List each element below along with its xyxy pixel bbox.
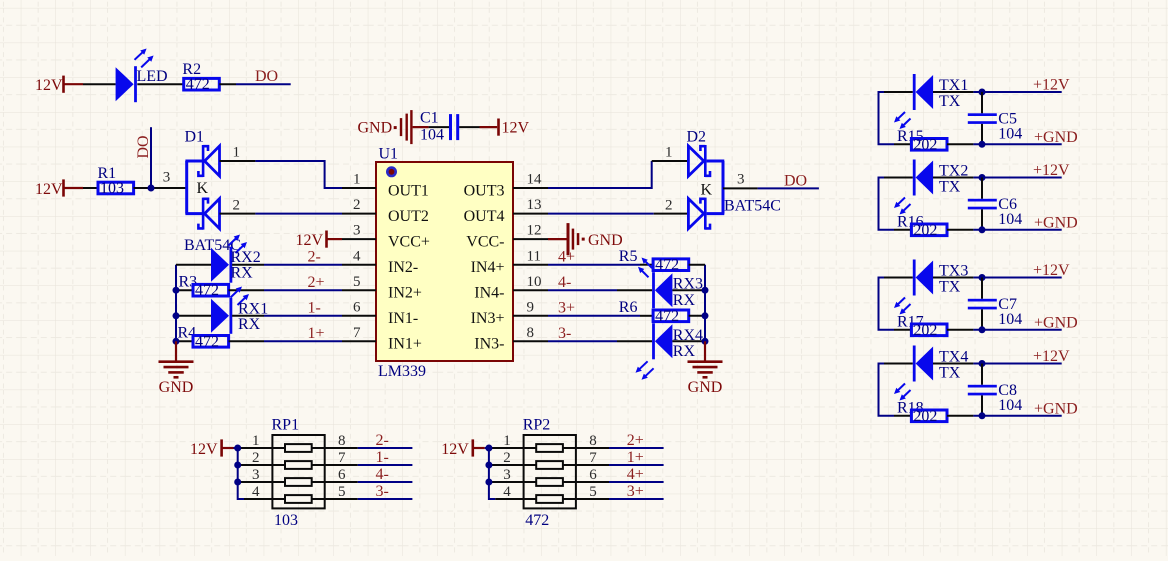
wire U1 pin8 to RX4	[548, 340, 652, 342]
wire net DO vertical	[150, 127, 152, 188]
net label +12V (TX1)	[1033, 77, 1070, 94]
svg-text:7: 7	[353, 325, 361, 341]
wire RX1 to U1 pin6	[232, 315, 342, 317]
svg-text:104: 104	[998, 125, 1022, 142]
net label 2+	[308, 274, 325, 291]
svg-text:OUT3: OUT3	[464, 182, 505, 199]
net label 4+	[558, 249, 575, 266]
LED TX4	[884, 346, 968, 401]
D1 pin 2	[220, 197, 256, 213]
net label +GND (TX2)	[1034, 214, 1078, 231]
svg-text:2-: 2-	[376, 432, 389, 449]
U1 pin 2 (OUT2)	[342, 197, 429, 225]
wire R4 to U1 pin7	[229, 340, 342, 342]
U1 pin 11 (IN4+)	[471, 248, 548, 276]
power port GND (VCC-)	[548, 223, 623, 255]
junction RP2 rail row 3	[485, 479, 492, 486]
resistor R1 103	[98, 165, 134, 197]
svg-text:1: 1	[233, 145, 241, 161]
LED TX3	[884, 260, 968, 315]
svg-text:RP1: RP1	[272, 417, 300, 434]
svg-text:+12V: +12V	[1033, 262, 1070, 279]
U1 pin 7 (IN1+)	[342, 325, 422, 353]
LED TX2	[884, 160, 968, 215]
net label 1-	[376, 449, 389, 466]
D2 pin 2	[654, 197, 689, 213]
wire GND to C1	[429, 126, 449, 128]
wire D1 pin2 to U1 pin2	[255, 213, 342, 215]
net label DO (top)	[255, 68, 278, 85]
svg-text:TX: TX	[939, 178, 961, 195]
svg-text:3-: 3-	[558, 325, 571, 342]
resistor R15 202	[894, 128, 947, 153]
svg-text:TX: TX	[939, 364, 961, 381]
svg-text:2: 2	[353, 197, 361, 213]
RP1 pin 7	[325, 450, 358, 466]
svg-text:12V: 12V	[441, 441, 469, 458]
resistor R3 472	[176, 273, 229, 299]
svg-text:3: 3	[503, 467, 511, 483]
svg-text:202: 202	[913, 136, 937, 153]
LED TX1	[884, 74, 968, 129]
LED RX3	[652, 272, 703, 309]
net label +12V (TX3)	[1033, 262, 1070, 279]
svg-text:8: 8	[338, 433, 346, 449]
svg-text:OUT4: OUT4	[464, 208, 505, 225]
wire D2 pin3 to net DO	[758, 187, 819, 189]
svg-text:12V: 12V	[296, 232, 324, 249]
diode D2 BAT54C common-cathode pair	[687, 129, 781, 230]
U1 pin 14 (OUT3)	[464, 172, 548, 200]
resistor R16 202	[894, 213, 947, 238]
net label 4-	[376, 466, 389, 483]
svg-text:BAT54C: BAT54C	[724, 197, 781, 214]
svg-text:TX: TX	[939, 278, 961, 295]
svg-text:IN4+: IN4+	[471, 259, 505, 276]
wire LED to R2	[137, 83, 183, 85]
RP2 pin 7	[576, 450, 609, 466]
svg-text:3+: 3+	[627, 483, 644, 500]
RP1 element 4	[272, 495, 324, 503]
svg-text:3-: 3-	[376, 483, 389, 500]
ground (right)	[688, 341, 723, 396]
svg-text:472: 472	[655, 257, 679, 274]
junction RX1/rail	[173, 312, 180, 319]
svg-text:IN2+: IN2+	[388, 285, 422, 302]
U1 pin 12 (VCC-)	[466, 223, 548, 251]
RP1 pin 5	[325, 484, 358, 500]
svg-text:VCC-: VCC-	[466, 233, 504, 250]
wire right GND rail	[704, 265, 706, 342]
net label +12V (TX4)	[1033, 348, 1070, 365]
comparator U1 LM339 body	[376, 145, 513, 380]
svg-text:OUT1: OUT1	[388, 182, 429, 199]
junction R4/rail/GND	[173, 338, 180, 345]
capacitor C6 104	[968, 178, 1023, 230]
svg-text:472: 472	[195, 333, 219, 350]
net label 1+	[308, 325, 325, 342]
junction RP1 rail row 3	[234, 479, 241, 486]
power port 12V (left, mid)	[35, 179, 83, 197]
svg-text:103: 103	[274, 512, 298, 529]
RP1 pin 6	[325, 467, 358, 483]
net label 2-	[308, 249, 321, 266]
svg-text:12V: 12V	[35, 77, 63, 94]
svg-text:12V: 12V	[190, 441, 218, 458]
U1 pin 3 (VCC+)	[342, 223, 430, 251]
RP2 pin 1	[491, 433, 523, 449]
net label 3-	[376, 483, 389, 500]
svg-text:1: 1	[353, 172, 361, 188]
power port 12V (VCC+)	[296, 231, 343, 249]
svg-text:2: 2	[665, 197, 673, 213]
wire R3 to U1 pin5	[229, 289, 342, 291]
svg-text:14: 14	[527, 172, 543, 188]
svg-text:2-: 2-	[308, 249, 321, 266]
svg-text:+GND: +GND	[1034, 129, 1078, 146]
svg-text:1: 1	[252, 433, 260, 449]
svg-text:4+: 4+	[627, 466, 644, 483]
net label +GND (TX1)	[1034, 129, 1078, 146]
RP1 pin 4	[244, 484, 272, 500]
svg-text:6: 6	[338, 467, 346, 483]
U1 pin 5 (IN2+)	[342, 274, 422, 302]
svg-text:2+: 2+	[627, 432, 644, 449]
svg-text:202: 202	[913, 222, 937, 239]
svg-text:104: 104	[998, 397, 1022, 414]
svg-text:IN3+: IN3+	[471, 310, 505, 327]
net label 3+	[558, 300, 575, 317]
svg-text:1+: 1+	[308, 325, 325, 342]
resistor R2 472	[182, 61, 219, 93]
svg-text:R5: R5	[619, 248, 638, 265]
capacitor C7 104	[968, 278, 1023, 330]
svg-text:5: 5	[353, 274, 361, 290]
RP2 element 1	[524, 444, 576, 452]
svg-text:1-: 1-	[308, 300, 321, 317]
svg-text:4: 4	[252, 484, 260, 500]
svg-text:RX: RX	[673, 292, 696, 309]
svg-text:3: 3	[252, 467, 260, 483]
svg-text:RX: RX	[238, 316, 261, 333]
RP2 pin 6	[576, 467, 609, 483]
wire RP2 pin 8 net 2+	[609, 447, 664, 449]
net label +12V (TX2)	[1033, 162, 1070, 179]
capacitor C8 104	[968, 364, 1023, 416]
svg-text:12V: 12V	[35, 181, 63, 198]
svg-text:8: 8	[589, 433, 597, 449]
capacitor C5 104	[968, 92, 1023, 144]
svg-text:IN4-: IN4-	[474, 285, 504, 302]
svg-text:+GND: +GND	[1034, 400, 1078, 417]
net label 1-	[308, 300, 321, 317]
svg-text:4: 4	[353, 248, 361, 264]
svg-text:DO: DO	[135, 135, 152, 158]
svg-text:4-: 4-	[376, 466, 389, 483]
svg-text:TX: TX	[939, 93, 961, 110]
ground (left)	[159, 341, 194, 396]
svg-text:OUT2: OUT2	[388, 208, 429, 225]
resistor R5 472	[619, 248, 689, 277]
svg-text:LED: LED	[137, 68, 168, 85]
svg-text:R6: R6	[619, 299, 638, 316]
wire U1 pin14 to D2 pin1	[548, 161, 652, 188]
svg-text:2: 2	[503, 450, 511, 466]
wire RP2 pin 5 net 3+	[609, 498, 664, 500]
RP1 element 3	[272, 478, 324, 486]
svg-text:+GND: +GND	[1034, 314, 1078, 331]
junction R15/+GND/C5	[979, 141, 986, 148]
RP2 pin 3	[491, 467, 523, 483]
svg-text:LM339: LM339	[378, 363, 426, 380]
RP2 element 2	[524, 461, 576, 469]
wire bracket TX1	[879, 92, 895, 144]
svg-text:6: 6	[589, 467, 597, 483]
wire R2 to net DO	[219, 83, 290, 85]
junction R16/+GND/C6	[979, 226, 986, 233]
svg-text:104: 104	[998, 211, 1022, 228]
junction TX4/+12V/C8	[979, 360, 986, 367]
wire D1 pin1 to U1 pin1	[255, 161, 342, 188]
wire bracket TX2	[879, 178, 895, 230]
wire TX3 anode to +12V	[933, 277, 1062, 279]
wire R18 to +GND	[947, 415, 1062, 417]
svg-text:104: 104	[420, 127, 444, 144]
wire left GND rail	[175, 265, 177, 342]
D2 pin 3	[723, 172, 758, 189]
wire TX2 anode to +12V	[933, 177, 1062, 179]
power port 12V (RP2)	[441, 439, 485, 457]
net label 3-	[558, 325, 571, 342]
wire U1 pin10 to RX3	[548, 289, 652, 291]
RP1 pin 3	[240, 467, 272, 483]
wire U1 pin13 to D2 pin2	[548, 213, 654, 215]
svg-text:3+: 3+	[558, 300, 575, 317]
RP1 pin 1	[240, 433, 272, 449]
svg-text:D1: D1	[185, 129, 205, 146]
svg-text:472: 472	[186, 76, 210, 93]
svg-text:GND: GND	[159, 379, 194, 396]
power port GND (top)	[358, 110, 429, 144]
svg-text:6: 6	[353, 299, 361, 315]
U1 pin 9 (IN3+)	[471, 299, 548, 327]
svg-text:K: K	[197, 180, 209, 197]
svg-text:2: 2	[233, 197, 241, 213]
svg-text:202: 202	[913, 322, 937, 339]
wire 12V to R1	[83, 187, 98, 189]
wire RX3 to rail	[672, 287, 708, 294]
D2 pin 1	[652, 145, 689, 162]
LED (indicator diode)	[116, 49, 168, 103]
svg-text:IN1-: IN1-	[388, 310, 418, 327]
svg-text:103: 103	[100, 180, 124, 197]
diode D1 BAT54C common-cathode pair	[184, 129, 241, 254]
D1 pin 1	[220, 145, 256, 162]
svg-text:C1: C1	[420, 110, 439, 127]
wire R17 to +GND	[947, 329, 1062, 331]
U1 pin 1 (OUT1)	[342, 172, 429, 200]
wire RP2 pin 7 net 1+	[609, 464, 664, 466]
svg-text:7: 7	[338, 450, 346, 466]
RP2 pin 2	[491, 450, 523, 466]
svg-text:472: 472	[655, 308, 679, 325]
svg-text:RX: RX	[231, 265, 254, 282]
U1 pin 13 (OUT4)	[464, 197, 548, 225]
wire RP2 pin 6 net 4+	[609, 481, 664, 483]
svg-text:11: 11	[527, 248, 541, 264]
svg-text:K: K	[701, 181, 713, 198]
svg-text:1-: 1-	[376, 449, 389, 466]
U1 pin 10 (IN4-)	[474, 274, 548, 302]
resistor R6 472	[619, 299, 689, 325]
svg-text:5: 5	[338, 484, 346, 500]
LED RX2	[176, 235, 261, 283]
wire 12V rail RP1	[234, 448, 245, 499]
RP1 element 1	[272, 444, 324, 452]
power port 12V (top middle)	[480, 119, 530, 137]
svg-text:2+: 2+	[308, 274, 325, 291]
RP1 pin 2	[240, 450, 272, 466]
pin 3 label of D1	[163, 170, 171, 186]
resistor network RP1 103	[272, 417, 325, 529]
svg-text:7: 7	[589, 450, 597, 466]
svg-text:472: 472	[525, 512, 549, 529]
net label 2+	[627, 432, 644, 449]
svg-text:4-: 4-	[558, 274, 571, 291]
svg-text:RX2: RX2	[231, 249, 261, 266]
wire R15 to +GND	[947, 143, 1062, 145]
junction TX2/+12V/C6	[979, 174, 986, 181]
svg-text:RX: RX	[673, 343, 696, 360]
svg-text:5: 5	[589, 484, 597, 500]
RP2 pin 8	[576, 433, 609, 449]
wire TX1 anode to +12V	[933, 91, 1062, 93]
svg-text:GND: GND	[358, 120, 393, 137]
wire C1 to 12V	[459, 126, 479, 128]
net label 4+	[627, 466, 644, 483]
junction TX1/+12V/C5	[979, 89, 986, 96]
resistor R4 472	[176, 325, 229, 351]
svg-text:DO: DO	[784, 172, 807, 189]
svg-text:10: 10	[527, 274, 542, 290]
RP1 element 2	[272, 461, 324, 469]
svg-text:+12V: +12V	[1033, 77, 1070, 94]
svg-text:3: 3	[737, 172, 745, 188]
junction R3/rail	[173, 287, 180, 294]
svg-text:VCC+: VCC+	[388, 233, 430, 250]
wire U1 pin9 to R6	[548, 315, 653, 317]
net label 4-	[558, 274, 571, 291]
LED RX4	[636, 323, 704, 380]
wire RP1 pin 6 net 4-	[358, 481, 413, 483]
svg-text:13: 13	[527, 197, 542, 213]
svg-text:RP2: RP2	[523, 417, 551, 434]
svg-text:12: 12	[527, 223, 542, 239]
svg-text:9: 9	[527, 299, 535, 315]
svg-text:472: 472	[195, 282, 219, 299]
RP2 pin 4	[495, 484, 523, 500]
U1 pin 8 (IN3-)	[474, 325, 548, 353]
capacitor C1 104	[420, 110, 459, 144]
net label DO (right)	[784, 172, 807, 189]
svg-text:2: 2	[252, 450, 260, 466]
net label 2-	[376, 432, 389, 449]
svg-text:12V: 12V	[502, 120, 530, 137]
net label DO (vertical)	[135, 135, 152, 158]
wire R6 to rail	[689, 312, 709, 319]
wire TX4 anode to +12V	[933, 363, 1062, 365]
junction RP1 rail row 2	[234, 462, 241, 469]
net label 3+	[627, 483, 644, 500]
wire RP1 pin 5 net 3-	[358, 498, 413, 500]
wire RP1 pin 8 net 2-	[358, 447, 413, 449]
RP2 element 4	[524, 495, 576, 503]
svg-text:IN3-: IN3-	[474, 336, 504, 353]
wire U1 pin11 to R5	[548, 264, 653, 266]
svg-text:U1: U1	[379, 145, 399, 162]
wire R5 to rail	[689, 264, 705, 266]
svg-text:104: 104	[998, 311, 1022, 328]
resistor R17 202	[894, 313, 947, 338]
power port 12V (top-left)	[35, 76, 83, 94]
svg-text:202: 202	[913, 408, 937, 425]
junction R17/+GND/C7	[979, 326, 986, 333]
net label 1+	[627, 449, 644, 466]
net label +GND (TX4)	[1034, 400, 1078, 417]
U1 pin 6 (IN1-)	[342, 299, 418, 327]
wire 12V rail RP2	[485, 448, 496, 499]
resistor network RP2 472	[523, 417, 576, 529]
svg-text:+12V: +12V	[1033, 162, 1070, 179]
LED RX1	[176, 287, 268, 334]
RP1 pin 8	[325, 433, 358, 449]
svg-text:IN1+: IN1+	[388, 336, 422, 353]
wire RX2 to U1 pin4	[232, 264, 342, 266]
wire bracket TX3	[879, 278, 895, 330]
junction TX3/+12V/C7	[979, 274, 986, 281]
wire RX4 to rail	[672, 338, 708, 345]
svg-text:D2: D2	[687, 129, 707, 146]
junction node DO/R1/D1	[148, 185, 155, 192]
svg-text:1: 1	[665, 145, 673, 161]
junction RP2 rail row 2	[485, 462, 492, 469]
svg-text:4+: 4+	[558, 249, 575, 266]
wire 12V to LED	[83, 83, 116, 85]
svg-text:GND: GND	[688, 379, 723, 396]
svg-text:DO: DO	[255, 68, 278, 85]
wire R16 to +GND	[947, 229, 1062, 231]
wire RP1 pin 7 net 1-	[358, 464, 413, 466]
svg-text:3: 3	[353, 223, 361, 239]
junction RP1 rail row 1	[234, 445, 241, 452]
junction R18/+GND/C8	[979, 412, 986, 419]
svg-text:+12V: +12V	[1033, 348, 1070, 365]
svg-text:8: 8	[527, 325, 535, 341]
svg-text:IN2-: IN2-	[388, 259, 418, 276]
resistor R18 202	[894, 399, 947, 424]
power port 12V (RP1)	[190, 439, 234, 457]
wire R1 to D1 (node 3)	[134, 187, 187, 189]
U1 pin 4 (IN2-)	[342, 248, 418, 276]
junction RP2 rail row 1	[485, 445, 492, 452]
RP2 element 3	[524, 478, 576, 486]
svg-text:1+: 1+	[627, 449, 644, 466]
svg-text:4: 4	[503, 484, 511, 500]
svg-text:1: 1	[503, 433, 511, 449]
svg-text:3: 3	[163, 170, 171, 186]
wire bracket TX4	[879, 364, 895, 416]
svg-text:GND: GND	[588, 232, 623, 249]
